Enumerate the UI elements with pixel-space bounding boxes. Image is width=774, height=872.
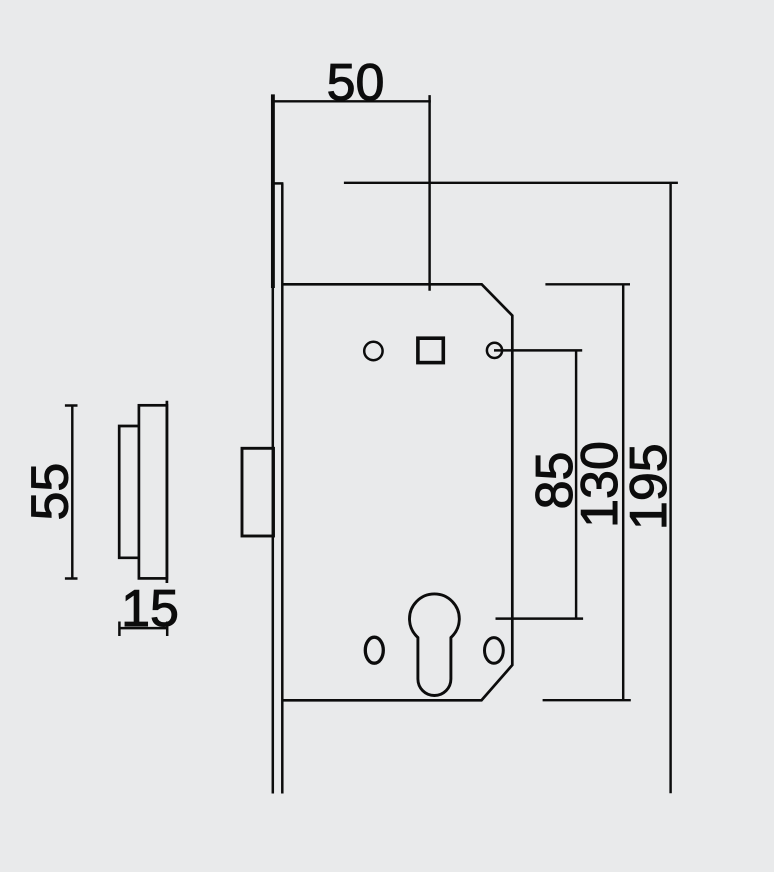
striker plate side view back plate <box>139 405 167 578</box>
svg-text:50: 50 <box>327 54 385 112</box>
dimension 85 top extension line <box>494 349 582 351</box>
euro cylinder keyhole <box>410 594 460 696</box>
striker plate side view right edge overshoot <box>166 401 169 583</box>
svg-text:55: 55 <box>21 463 79 521</box>
dimension 15 right tick <box>166 622 169 637</box>
svg-text:85: 85 <box>526 452 584 510</box>
dimension 130 line <box>622 284 624 700</box>
dimension 15 line <box>119 627 167 629</box>
dimension 15 left tick <box>118 622 121 637</box>
dimension 85 bottom extension line <box>496 617 584 619</box>
dimension 195 top extension line <box>344 182 678 184</box>
svg-text:15: 15 <box>121 580 179 638</box>
faceplate right edge <box>281 183 284 793</box>
dimension 195 line <box>669 183 671 794</box>
dimension 50 line <box>272 100 431 102</box>
right oval fixing hole <box>485 638 504 664</box>
handle follower hole (left circle) <box>364 342 382 360</box>
faceplate top edge <box>272 182 284 185</box>
latch bolt <box>242 448 274 536</box>
dimension 50 extension line left (overlaps faceplate edge) <box>271 94 275 288</box>
dimension 85 line <box>575 350 577 618</box>
dimension 55 bottom tick <box>65 577 78 580</box>
dimension 50 extension line right <box>428 95 430 291</box>
dimension 130 top extension line <box>545 283 630 285</box>
left oval fixing hole <box>365 637 383 663</box>
dimension 130 bottom extension line <box>543 699 631 701</box>
lock body outline <box>282 284 512 700</box>
faceplate left edge <box>272 183 275 793</box>
striker plate side view lip <box>119 426 139 558</box>
spindle square hole <box>418 338 443 362</box>
dimension 55 line <box>71 406 73 579</box>
fixing hole (right circle) <box>487 343 502 358</box>
dimension 55 top tick <box>65 404 78 407</box>
